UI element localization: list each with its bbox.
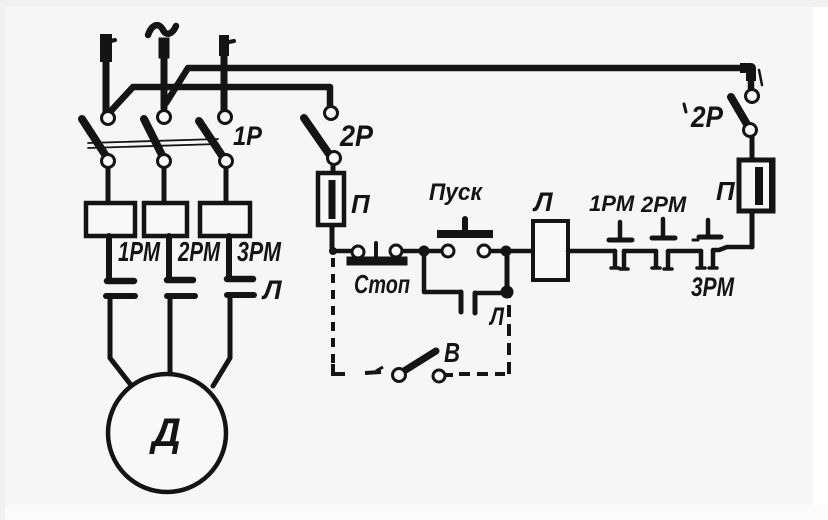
- svg-text:3РМ: 3РМ: [691, 272, 734, 302]
- svg-text:Л: Л: [488, 303, 504, 331]
- svg-text:2РМ: 2РМ: [640, 192, 687, 217]
- svg-text:2Р: 2Р: [339, 120, 374, 153]
- svg-text:Л: Л: [532, 187, 554, 217]
- svg-text:2РМ: 2РМ: [177, 236, 220, 267]
- svg-text:3РМ: 3РМ: [237, 236, 282, 267]
- svg-text:Пуск: Пуск: [429, 179, 484, 206]
- svg-text:1Р: 1Р: [233, 121, 263, 151]
- svg-text:П: П: [351, 189, 371, 219]
- svg-text:П: П: [716, 176, 736, 206]
- svg-text:1РМ: 1РМ: [589, 191, 635, 216]
- svg-text:Л: Л: [261, 275, 283, 305]
- svg-text:2Р: 2Р: [690, 101, 724, 134]
- svg-text:1РМ: 1РМ: [118, 236, 160, 267]
- svg-text:Стоп: Стоп: [354, 269, 410, 299]
- svg-text:Д: Д: [149, 411, 181, 455]
- svg-text:В: В: [444, 337, 460, 368]
